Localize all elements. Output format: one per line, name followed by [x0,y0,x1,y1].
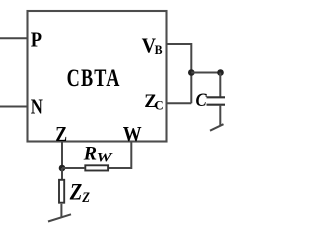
wire node A to node B [191,72,220,74]
node junction dot B [217,69,224,76]
node junction dot Z [59,165,66,172]
ground (ZZ) [48,214,71,221]
ground (capacitor) [210,124,224,131]
capacitor C [207,97,226,104]
svg-text:W: W [123,123,142,146]
CBTA block U1 [28,11,167,142]
svg-text:ZZ: ZZ [69,178,90,205]
resistor RW [85,165,108,170]
wire node Z to impedance ZZ [61,168,63,179]
wire ZC [167,102,192,104]
svg-text:CBTA: CBTA [67,64,121,91]
svg-text:W: W [97,151,114,165]
wire node B to capacitor [219,73,221,98]
wire N input [0,106,28,108]
wire capacitor to ground [219,105,221,126]
wire ZZ to ground [60,204,62,217]
svg-text:VB: VB [142,35,163,58]
node junction dot A [188,69,195,76]
svg-text:ZC: ZC [144,91,163,113]
svg-text:C: C [196,89,208,110]
svg-text:N: N [31,96,43,119]
wire node Z to resistor [62,167,84,169]
impedance ZZ [59,180,64,203]
wire VB [167,44,192,103]
svg-text:P: P [31,28,42,51]
wire Z down [61,142,63,169]
svg-text:R: R [83,144,97,164]
wire resistor to W [109,142,131,169]
wire P input [0,37,28,39]
